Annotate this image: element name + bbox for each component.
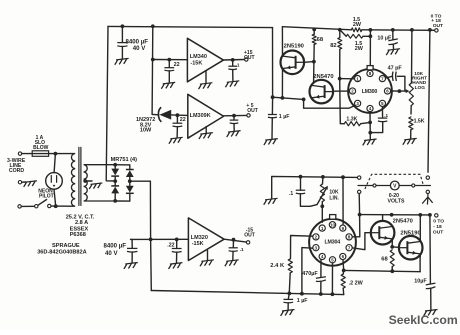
- terminal +18 OUT: [435, 29, 438, 32]
- svg-text:2N5470: 2N5470: [313, 74, 333, 80]
- pin 9 of LM304: [340, 225, 346, 231]
- label LM304: [325, 239, 341, 245]
- op-amp U1 LM340-15K regulator triangle: [187, 38, 223, 82]
- svg-text:.22: .22: [167, 242, 174, 248]
- ground chassis below meter right: [422, 194, 432, 205]
- node meter feed on rail: [428, 28, 432, 32]
- op-amp U3 LM300 can outline: [348, 69, 392, 113]
- pin 1 of LM300: [355, 76, 361, 82]
- label 1N2972 8.2V 10W: [136, 117, 155, 133]
- node rectifier left top: [113, 163, 117, 167]
- wire 2N5470 base to LM300 pin2: [333, 90, 349, 92]
- terminal meter select right top: [426, 176, 429, 179]
- op-amp U4 LM320-15K regulator triangle: [188, 218, 224, 261]
- svg-text:MR751 (4): MR751 (4): [111, 157, 138, 163]
- transistor Q3 2N5470 (lower): [371, 221, 395, 245]
- svg-text:68: 68: [317, 37, 324, 43]
- pin 4 of LM300: [367, 105, 373, 111]
- resistor 1.5 2W (bottom of parallel pair): [340, 30, 371, 38]
- capacitor 8400uF 40V (lower filter): [127, 239, 137, 262]
- svg-text:10µF: 10µF: [414, 279, 427, 285]
- wire rectifier bottom: [115, 200, 130, 202]
- label 1uF mid: [279, 114, 290, 120]
- svg-text:47 pF: 47 pF: [388, 65, 403, 71]
- svg-text:22: 22: [180, 117, 186, 123]
- svg-text:-15K: -15K: [190, 61, 202, 67]
- label 22 (LM340 input cap): [174, 62, 180, 68]
- label 47pF: [388, 65, 403, 71]
- wire rectifier minus to long vertical: [130, 180, 151, 182]
- wire meter branch: [358, 185, 431, 187]
- svg-text:OUT: OUT: [247, 108, 258, 114]
- label 10K LIN: [329, 190, 339, 202]
- svg-text:OUT: OUT: [433, 229, 443, 235]
- ground below 1.5K: [403, 138, 417, 144]
- terminal meter select right bottom: [426, 190, 429, 193]
- node +raw wire left: [271, 95, 275, 99]
- wire -raw rail down to pin8: [353, 215, 360, 237]
- pin 7 of LM304: [346, 245, 352, 251]
- wire pin7 to lower 2N5470 base: [353, 233, 371, 250]
- wire pin1 to 82 node: [340, 78, 354, 80]
- node lower darlington base junction: [390, 245, 394, 249]
- node rectifier left bottom: [113, 199, 117, 203]
- capacitor 8400uF 40V (upper filter): [117, 26, 127, 58]
- svg-text:VOLTS: VOLTS: [388, 199, 405, 205]
- node top rail / filter cap junction: [121, 24, 125, 28]
- wire rail corner down to +raw node: [272, 28, 274, 98]
- svg-text:2W: 2W: [355, 46, 364, 52]
- node pin4/.1 cap junction: [368, 131, 372, 135]
- svg-text:BLOW: BLOW: [33, 145, 49, 151]
- label +15 OUT: [244, 50, 255, 61]
- label 25.2V CT 2.8A ESSEX P6368: [66, 215, 95, 238]
- node pin6 wiper junction: [398, 89, 402, 93]
- resistor 1.5 2W (top of parallel pair): [351, 28, 362, 32]
- ground below 10uF top: [386, 49, 400, 55]
- capacitor .22 at LM320 input: [172, 239, 182, 262]
- wire lower 2N5470 collector up: [382, 215, 384, 221]
- capacitor 22 at LM309K input: [173, 115, 183, 137]
- transistor Q4 2N5190 (lower): [399, 236, 423, 260]
- switch meter select left top: [358, 176, 361, 179]
- svg-text:1.3K: 1.3K: [346, 117, 357, 123]
- terminal +15 OUT: [245, 58, 248, 61]
- capacitor .1 at LM300 pin5: [370, 107, 387, 133]
- node rectifier - output: [128, 179, 132, 183]
- node -raw rail left: [358, 213, 362, 217]
- diode D4 MR751 (right bottom): [126, 181, 134, 201]
- svg-text:0 TO: 0 TO: [433, 218, 444, 224]
- ground below .22 cap: [169, 263, 183, 269]
- svg-text:1.5K: 1.5K: [414, 119, 425, 125]
- watermark SeekIC.com: [389, 313, 458, 327]
- svg-text:36D-842G040B82A: 36D-842G040B82A: [37, 250, 86, 256]
- wire rectifier top: [115, 164, 130, 166]
- ground below pin4: [363, 139, 377, 145]
- label 10uF bottom: [414, 279, 427, 285]
- resistor .2 2W: [341, 270, 345, 294]
- node -18 out filter on rail: [428, 213, 432, 217]
- wire 68 node down to 2N5470 collector: [313, 62, 315, 82]
- svg-text:OUT: OUT: [433, 23, 443, 29]
- wire left unregulated feed down to rectifier: [106, 26, 115, 181]
- node parallel pair right bottom: [369, 34, 373, 38]
- terminal meter left: [373, 184, 376, 187]
- wire lower bus down to pin9: [342, 177, 344, 224]
- wire pin2 to 2.4K: [291, 236, 313, 259]
- ground below zener 22 cap: [169, 137, 183, 143]
- svg-text:CORD: CORD: [9, 168, 25, 174]
- tab of LM300 can: [367, 66, 373, 70]
- wire LM340 output: [223, 59, 244, 62]
- svg-text:.1: .1: [236, 63, 240, 68]
- wire -raw rail: [360, 214, 431, 216]
- node pot top on rail: [410, 28, 414, 32]
- wiper arrow into 10K pot: [399, 89, 409, 93]
- pin 8 of LM304: [346, 234, 352, 240]
- pin 2 of LM300: [349, 88, 355, 94]
- node 2N5190 emitter junction: [281, 96, 285, 100]
- svg-text:1 µF: 1 µF: [297, 298, 308, 304]
- wire second rail (resistor feed): [282, 27, 351, 30]
- label LM340 -15K: [190, 54, 207, 67]
- meter dashed enclosure: [365, 174, 424, 189]
- svg-text:2N5190: 2N5190: [284, 44, 304, 50]
- label .1 (lower bus cap): [289, 191, 293, 197]
- svg-text:68: 68: [381, 257, 388, 263]
- capacitor 1uF mid bypass: [268, 97, 277, 139]
- pin 3 of LM300: [355, 100, 361, 106]
- resistor 2.4K: [288, 259, 292, 293]
- wire second rail right segment: [362, 29, 435, 32]
- svg-text:LIN.: LIN.: [329, 195, 339, 201]
- wire 82 node down to 1.3K: [340, 79, 345, 124]
- node 470uF on rail: [319, 292, 323, 296]
- label +5 OUT: [246, 103, 257, 114]
- node LM340 output cap junction: [231, 58, 235, 62]
- svg-text:10W: 10W: [140, 128, 152, 134]
- op-amp U5 LM304 can outline: [309, 219, 356, 266]
- svg-text:-15K: -15K: [192, 241, 204, 247]
- label 2N5190 (lower): [400, 231, 420, 237]
- diode D1 MR751 (left top): [111, 165, 119, 181]
- wire pin6 to pot wiper: [391, 90, 400, 92]
- ground below LM309K: [199, 133, 213, 139]
- node neon bottom junction: [54, 204, 58, 208]
- pin 5 of LM304: [329, 257, 335, 263]
- capacitor .1 on lower bus: [296, 177, 311, 207]
- wire pin4 to 470uF: [320, 260, 322, 278]
- ground below +5 output cap: [227, 131, 241, 137]
- label .1 (pin5 cap): [384, 113, 388, 118]
- label 1.5K: [414, 119, 425, 125]
- wire pin5 down to rail: [331, 263, 333, 294]
- node 10uF top on rail: [391, 28, 395, 32]
- capacitor 10uF (bottom): [426, 215, 436, 310]
- svg-text:10: 10: [330, 223, 335, 228]
- terminal line cord ground lead: [18, 181, 25, 184]
- svg-text:8400 µF: 8400 µF: [104, 243, 127, 250]
- wire vertical feed to LM340/zener: [151, 26, 154, 114]
- wire pin3 down to rail: [302, 248, 313, 293]
- wire long negative vertical: [149, 181, 152, 290]
- terminal meter right: [412, 184, 415, 187]
- wire LM309K output: [224, 114, 247, 116]
- capacitor .1 at +5 output: [230, 116, 239, 131]
- resistor 82: [338, 30, 342, 79]
- label LM320 -15K: [191, 235, 208, 247]
- label 1.5 2W (bottom): [355, 41, 364, 52]
- svg-text:LM304: LM304: [325, 239, 341, 245]
- label .22: [167, 242, 174, 248]
- node lower bus to pin9: [341, 175, 345, 179]
- svg-text:2.8 A: 2.8 A: [75, 220, 88, 226]
- label 82: [330, 43, 336, 49]
- ground below lower bus corner: [264, 198, 278, 204]
- label SPRAGUE 36D-842G040B82A: [37, 243, 86, 256]
- svg-text:OUT: OUT: [244, 55, 255, 61]
- node long vertical at -15 rail: [149, 238, 153, 242]
- capacitor 22 at LM340 input: [164, 60, 174, 83]
- node pot top on lower bus: [321, 175, 325, 179]
- node LM340 input tap: [151, 58, 155, 62]
- node .1 cap on lower bus: [299, 175, 303, 179]
- ground below 10uF bottom: [424, 310, 438, 316]
- node pin6 output junction: [342, 269, 346, 273]
- ground below LM340: [199, 83, 213, 89]
- svg-text:OUT: OUT: [244, 232, 255, 238]
- svg-text:.1: .1: [384, 113, 388, 118]
- label 1.3K: [346, 117, 357, 123]
- node 22 cap at LM340 input: [167, 58, 171, 62]
- capacitor 1uF on bottom rail: [284, 293, 294, 309]
- label 2N5190 (upper): [284, 44, 304, 50]
- node parallel pair right top: [369, 28, 373, 32]
- wire output sense line: [344, 270, 420, 271]
- wire base of lower 2N5190: [392, 246, 399, 248]
- svg-text:22: 22: [174, 62, 180, 68]
- svg-text:82: 82: [330, 43, 336, 49]
- label 68 (lower): [381, 257, 388, 263]
- label MR751 (4): [111, 157, 138, 163]
- svg-text:P6368: P6368: [70, 232, 86, 238]
- svg-text:.2 2W: .2 2W: [349, 280, 364, 286]
- capacitor 47pF at pin7: [386, 72, 405, 92]
- label 10K RIGHT HAND LOG: [412, 71, 427, 91]
- node pot bottom junction: [320, 204, 324, 208]
- pin 3 of LM304: [313, 245, 319, 251]
- resistor 68 (upper): [312, 30, 316, 62]
- ground below 1uF mid cap: [264, 139, 278, 145]
- node 68/2N5190 base junction: [312, 60, 316, 64]
- node pin4/1.3K junction: [368, 121, 372, 125]
- ground stem LM309K: [205, 127, 207, 133]
- wire 2N5190 collector up: [281, 27, 283, 56]
- svg-text:.1: .1: [240, 247, 244, 252]
- label LM300: [362, 89, 378, 95]
- node .22 cap at LM320 input: [175, 238, 179, 242]
- ground below lower 8400uF: [124, 263, 138, 269]
- label -15 OUT: [244, 227, 255, 238]
- wire top positive rail (left segment): [108, 26, 273, 27]
- label 470uF: [302, 271, 318, 277]
- label 1A SLO BLOW: [33, 135, 49, 151]
- svg-text:.1: .1: [289, 191, 293, 197]
- pin 4 of LM304: [319, 253, 325, 259]
- tab of LM304 can: [330, 215, 336, 220]
- label .1 (+15 out cap): [236, 63, 240, 68]
- resistor 10K LIN pot: [320, 177, 324, 206]
- switch meter select left bottom: [358, 190, 361, 193]
- lamp neon pilot: [46, 154, 63, 207]
- wiper of 10K LIN pot: [310, 186, 328, 207]
- node pin5 on rail: [331, 292, 335, 296]
- transformer primary winding: [71, 154, 76, 207]
- ground stem LM340: [205, 71, 207, 83]
- terminal -18 OUT: [435, 214, 438, 217]
- wire pin6 to output node: [342, 260, 345, 271]
- svg-text:2W: 2W: [353, 22, 362, 28]
- wire LM340 input: [153, 59, 188, 61]
- svg-text:2.4 K: 2.4 K: [270, 263, 285, 269]
- wire pot bottom to LM304 pin1: [321, 206, 323, 222]
- pin 10 of LM304: [329, 222, 335, 228]
- wire lower 2N5190 emitter down: [419, 254, 421, 272]
- terminal +5 OUT: [247, 114, 250, 117]
- wire +raw horizontal to LM300 pin3 path: [273, 97, 355, 108]
- pin 1 of LM304: [319, 225, 325, 231]
- transistor Q1 2N5190 (upper): [281, 51, 305, 75]
- node neon top junction: [54, 152, 58, 156]
- ground below LM320: [200, 260, 214, 266]
- transformer secondary winding: [84, 165, 116, 201]
- diode D2 MR751 (left bottom): [111, 181, 119, 201]
- node 68 top on rail: [312, 28, 316, 32]
- diode zener 1N2972 8.2V 10W: [152, 107, 188, 122]
- svg-text:40 V: 40 V: [133, 45, 146, 52]
- capacitor 470uF: [316, 277, 326, 294]
- node pin3 on rail: [300, 292, 304, 296]
- ground below -15 output cap: [225, 260, 239, 266]
- wire LM300 tab feed: [369, 36, 371, 66]
- meter V 0-20 VOLTS: [390, 181, 399, 190]
- wire -15 input rail: [131, 238, 188, 240]
- node +5 output cap junction: [232, 114, 236, 118]
- transformer core: [79, 147, 81, 205]
- svg-text:LOG: LOG: [415, 85, 426, 91]
- terminal -15 OUT: [246, 241, 249, 244]
- wire meter feed down: [428, 30, 430, 172]
- label 0-20 VOLTS: [388, 193, 405, 205]
- capacitor 10uF (top): [388, 30, 397, 49]
- wire lower 2N5470 emitter to node: [391, 239, 393, 247]
- svg-text:SPRAGUE: SPRAGUE: [52, 243, 80, 249]
- node top rail to regulators feed: [151, 24, 155, 28]
- svg-text:- 18: - 18: [433, 224, 442, 230]
- node 82 top on rail: [338, 28, 342, 32]
- capacitor .1 at +15 output: [228, 60, 237, 81]
- label 8400uF 40V (lower): [104, 243, 127, 258]
- resistor 68 (lower): [390, 250, 394, 271]
- label .1 (-15 out cap): [240, 247, 244, 252]
- node 2N5470 emitter junction: [302, 98, 306, 102]
- label LM309K: [190, 113, 211, 119]
- label 22 (zener cap): [180, 117, 186, 123]
- label 0 TO -18 OUT: [433, 218, 444, 235]
- ground below 1uF: [281, 310, 295, 316]
- wire lower 2N5190 collector up: [419, 215, 421, 241]
- label 10uF top: [377, 35, 392, 41]
- node lower 2N5190 collector on rail: [418, 213, 422, 217]
- pin 7 of LM300: [379, 76, 385, 82]
- capacitor .1 at -15 output: [229, 240, 238, 260]
- svg-text:1 µF: 1 µF: [279, 114, 290, 120]
- node 2N5470 collector on rail: [390, 213, 394, 217]
- svg-text:10 µF: 10 µF: [377, 35, 392, 41]
- diode D3 MR751 (right top): [126, 165, 134, 181]
- resistor 1.5K: [409, 117, 413, 139]
- svg-text:LM309K: LM309K: [190, 113, 211, 119]
- svg-text:40 V: 40 V: [105, 250, 118, 257]
- ground below upper 8400uF: [115, 58, 129, 64]
- label 2N5470 (upper): [313, 74, 333, 80]
- label 1.5 2W (top): [353, 17, 362, 28]
- resistor 10K RIGHT HAND LOG pot: [409, 30, 413, 114]
- node 2.4K bottom on rail: [287, 292, 291, 296]
- svg-text:2N5470: 2N5470: [393, 219, 413, 225]
- svg-text:SeekIC.com: SeekIC.com: [389, 313, 458, 327]
- node 82 bottom / pin1 junction: [338, 77, 342, 81]
- label 1uF (bottom): [297, 298, 308, 304]
- node rectifier + output: [113, 179, 117, 183]
- fuse 1A SLO BLOW: [18, 151, 70, 157]
- wire switch to -raw rail: [358, 194, 360, 215]
- op-amp U2 LM309K regulator triangle: [188, 94, 224, 138]
- label NEON PILOT: [38, 188, 53, 199]
- svg-text:PILOT: PILOT: [39, 193, 54, 199]
- label 8400uF 40V (upper): [126, 38, 149, 52]
- label 2N5470 (lower): [393, 219, 413, 225]
- pin 5 of LM300: [379, 100, 385, 106]
- svg-text:470µF: 470µF: [302, 271, 318, 277]
- pin 6 of LM300: [384, 88, 390, 94]
- resistor 1.3K: [344, 122, 370, 126]
- pin 2 of LM304: [313, 234, 319, 240]
- ground of center tap: [89, 183, 102, 189]
- switch power on/off: [18, 200, 71, 209]
- label 3-WIRE LINE CORD: [7, 158, 26, 174]
- pin 8 of LM300: [367, 70, 373, 76]
- label 0 TO +18 OUT: [431, 13, 443, 29]
- ground stem LM320: [207, 250, 209, 260]
- node LM320 output cap junction: [232, 238, 236, 242]
- svg-text:2N5190: 2N5190: [400, 231, 420, 237]
- wire pin4 down: [369, 112, 371, 139]
- svg-text:LM340: LM340: [190, 54, 207, 60]
- wire stub joining pair ends: [369, 30, 371, 36]
- wire LM320 output: [224, 239, 246, 242]
- label 68 (upper): [317, 37, 324, 43]
- node 68 bottom junction: [390, 269, 394, 273]
- wire lower bus with ground corner: [272, 176, 358, 198]
- ground below +15 output cap: [225, 81, 239, 87]
- pin 6 of LM304: [340, 253, 346, 259]
- ground of line cord: [24, 181, 37, 187]
- ground below 22 cap: [161, 82, 175, 88]
- label .2 2W: [349, 280, 364, 286]
- node zener / 22 cap junction: [176, 113, 180, 117]
